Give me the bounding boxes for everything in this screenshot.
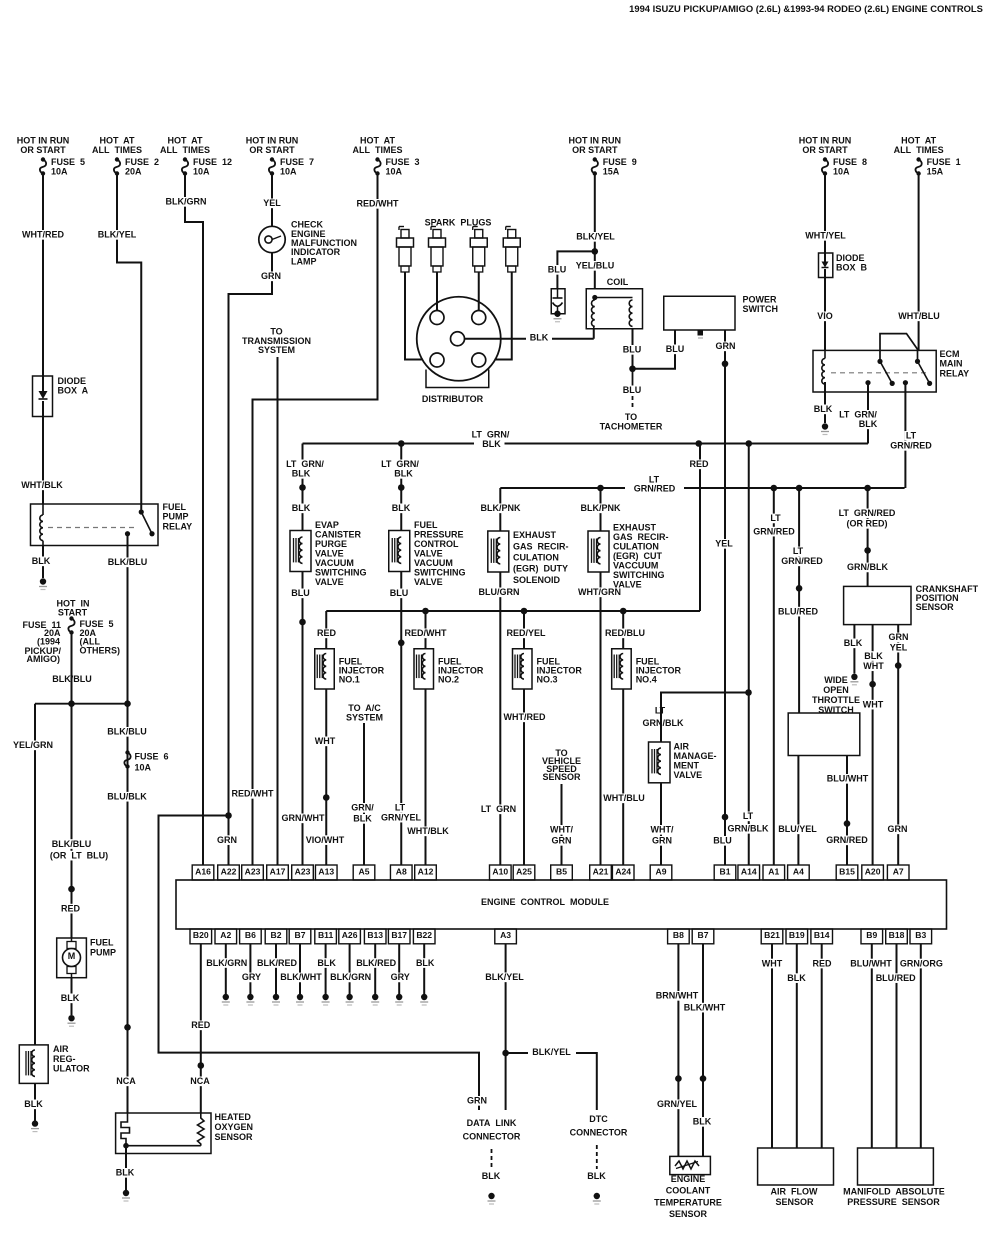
svg-text:ENGINE: ENGINE (671, 1174, 706, 1184)
fuel pump relay (31, 504, 159, 546)
svg-text:B22: B22 (416, 930, 432, 940)
node GRN/RED splice (844, 820, 851, 827)
svg-text:BLU/WHT: BLU/WHT (827, 774, 869, 784)
svg-text:OPEN: OPEN (823, 685, 849, 695)
pin B3 (910, 929, 932, 944)
svg-text:BLK/YEL: BLK/YEL (576, 232, 615, 242)
wire LT GRN/RED bus to A1 (773, 488, 775, 865)
wire air management valve branch (661, 693, 749, 743)
ground fuel pump relay (40, 578, 46, 584)
svg-text:VALVE: VALVE (414, 549, 443, 559)
svg-text:GAS RECIR-: GAS RECIR- (513, 541, 569, 551)
svg-text:GRN: GRN (217, 835, 237, 845)
wire WHT/GRN EGR cut to A21 (600, 572, 602, 865)
wire BLU/RED B18 (896, 944, 898, 1148)
svg-text:POWER: POWER (743, 295, 778, 305)
svg-text:BLK: BLK (416, 958, 435, 968)
svg-text:BLU: BLU (666, 344, 685, 354)
pin A24 (612, 865, 634, 880)
svg-text:BOX B: BOX B (836, 263, 868, 273)
svg-text:BLK: BLK (844, 638, 863, 648)
svg-text:WHT/RED: WHT/RED (22, 230, 64, 240)
svg-text:HEATED: HEATED (215, 1112, 252, 1122)
svg-text:PUMP: PUMP (163, 512, 189, 522)
svg-text:A26: A26 (342, 930, 358, 940)
spark plug 4 (505, 227, 507, 231)
wire BLK/RED to ground (374, 944, 376, 994)
svg-text:YEL/BLU: YEL/BLU (576, 261, 615, 271)
svg-text:BLK: BLK (693, 1117, 712, 1127)
pin B21 (761, 929, 783, 944)
svg-text:BLK: BLK (317, 958, 336, 968)
svg-text:(1994: (1994 (37, 637, 60, 647)
svg-text:ECM: ECM (940, 349, 960, 359)
svg-text:RELAY: RELAY (163, 521, 193, 531)
wire BLU/YEL WOT to A4 (797, 756, 799, 865)
svg-text:RED: RED (191, 1020, 211, 1030)
node BLK/BLU junction (35, 703, 128, 705)
pin A25 (513, 865, 535, 880)
wire BLU EVAP to splice (302, 572, 304, 623)
wire BLK/WHT crank sensor (872, 625, 874, 685)
diode box A (33, 376, 53, 417)
svg-text:20A: 20A (125, 166, 142, 176)
svg-text:A20: A20 (865, 866, 881, 876)
svg-text:B21: B21 (764, 930, 780, 940)
ground fuel pump (68, 1015, 74, 1021)
ground (322, 994, 328, 1000)
svg-text:CONNECTOR: CONNECTOR (570, 1128, 628, 1138)
svg-text:BLK: BLK (482, 1171, 501, 1181)
svg-text:BLK/RED: BLK/RED (257, 958, 297, 968)
svg-text:OR START: OR START (572, 145, 618, 155)
svg-text:RED: RED (61, 903, 81, 913)
svg-text:(OR LT BLU): (OR LT BLU) (50, 850, 108, 860)
wire YEL/GRN to air regulator (34, 704, 36, 1045)
svg-text:BRN/WHT: BRN/WHT (656, 991, 699, 1001)
wire WHT/BLK diode A to fuel pump relay (42, 417, 44, 505)
capacitor (condenser) (551, 289, 565, 314)
ground O2 sensor (123, 1190, 129, 1196)
svg-text:GRN/RED: GRN/RED (753, 526, 795, 536)
svg-text:ALL TIMES: ALL TIMES (160, 145, 210, 155)
svg-text:RED/BLU: RED/BLU (605, 628, 645, 638)
wire WHT/BLK injector2 to A12 (425, 689, 427, 865)
svg-text:BLU: BLU (623, 345, 642, 355)
node GRN splice (895, 662, 902, 669)
wire BLK/WHT to ground (299, 944, 301, 994)
diode box B (819, 253, 833, 278)
svg-text:BLK: BLK (859, 419, 878, 429)
svg-text:GRN: GRN (889, 632, 909, 642)
svg-text:BLK: BLK (353, 814, 372, 824)
svg-text:A25: A25 (516, 866, 532, 876)
fuel injector no.4 (622, 611, 624, 649)
svg-text:PRESSURE SENSOR: PRESSURE SENSOR (847, 1197, 940, 1207)
svg-text:COOLANT: COOLANT (666, 1186, 711, 1196)
svg-text:YEL: YEL (715, 539, 733, 549)
svg-text:A23: A23 (245, 866, 261, 876)
svg-text:PRESSURE: PRESSURE (414, 530, 464, 540)
svg-text:WHT/BLU: WHT/BLU (898, 311, 940, 321)
pin A26 (339, 929, 361, 944)
bus LT GRN/BLK (303, 443, 475, 445)
pin A13 (315, 865, 337, 880)
wire BLK/BLU fuse5 to fuel pump (71, 634, 73, 889)
pin A4 (788, 865, 810, 880)
svg-text:BLK/YEL: BLK/YEL (532, 1047, 571, 1057)
wire WHT/GRN to B5 (561, 784, 563, 865)
ground (223, 994, 229, 1000)
svg-text:WHT/BLU: WHT/BLU (603, 793, 645, 803)
svg-text:A17: A17 (270, 866, 286, 876)
wire EGR cut column (600, 488, 602, 531)
pin B6 (240, 929, 262, 944)
wire LT GRN/RED (OR RED) to crank sensor (867, 488, 869, 586)
svg-text:B5: B5 (556, 866, 567, 876)
plug wire 2 (436, 272, 438, 311)
svg-text:A1: A1 (768, 866, 779, 876)
svg-text:RELAY: RELAY (940, 368, 970, 378)
wire GRN/RED to B15 (846, 824, 848, 865)
svg-text:MANIFOLD ABSOLUTE: MANIFOLD ABSOLUTE (843, 1186, 945, 1196)
node EVAP GRN/WHT splice (299, 619, 306, 626)
svg-text:A13: A13 (318, 866, 334, 876)
heated oxygen sensor (116, 1113, 211, 1154)
svg-text:VACCUUM: VACCUUM (613, 561, 658, 571)
svg-text:B2: B2 (271, 930, 282, 940)
pin B18 (886, 929, 908, 944)
svg-text:GRN/BLK: GRN/BLK (643, 718, 684, 728)
svg-text:LT: LT (906, 431, 917, 441)
svg-text:BLK: BLK (292, 469, 311, 479)
ground data link (488, 1193, 494, 1199)
manifold absolute pressure sensor (858, 1148, 934, 1185)
wire BLU/WHT B9 (871, 944, 873, 1148)
pin B7 (692, 929, 714, 944)
node splice VIO/WHT (323, 794, 330, 801)
svg-text:BLU/WHT: BLU/WHT (850, 958, 892, 968)
svg-text:GRN/RED: GRN/RED (634, 484, 676, 494)
svg-text:A7: A7 (893, 866, 904, 876)
svg-text:B7: B7 (295, 930, 306, 940)
wire EVAP valve column (302, 444, 304, 531)
wire RED bus to injector feed (699, 444, 701, 612)
wire GRN/ORG B3 (920, 944, 922, 1148)
ground (372, 994, 378, 1000)
pin A16 (192, 865, 214, 880)
svg-text:LT: LT (793, 546, 804, 556)
svg-text:MAIN: MAIN (940, 359, 963, 369)
svg-text:10A: 10A (193, 166, 210, 176)
wire GRN lamp to A22 (229, 253, 273, 865)
pin B2 (265, 929, 287, 944)
pin A14 (738, 865, 760, 880)
EVAP canister purge valve (290, 531, 311, 572)
svg-text:SENSOR: SENSOR (775, 1197, 814, 1207)
plug wire 1 (405, 272, 423, 360)
wire VIO/WHT to A13 (325, 798, 327, 865)
air regulator (19, 1045, 48, 1084)
wire BLU coil to tach splice (632, 329, 634, 369)
svg-text:CULATION: CULATION (613, 542, 659, 552)
node air mgmt branch (745, 689, 752, 696)
svg-text:AIR: AIR (53, 1044, 69, 1054)
svg-text:GRN: GRN (552, 836, 572, 846)
svg-text:BLK: BLK (787, 973, 806, 983)
wire BLK fuel pump to ground (71, 978, 73, 1015)
svg-text:(EGR) DUTY: (EGR) DUTY (513, 564, 568, 574)
svg-text:WHT: WHT (762, 958, 783, 968)
node RED splice fuel pump (68, 886, 75, 893)
pin B19 (786, 929, 808, 944)
svg-text:YEL: YEL (890, 642, 908, 652)
pin B8 (668, 929, 690, 944)
wire BLK/YEL fuse9 (594, 174, 596, 252)
node bus1 RED feed (695, 440, 702, 447)
svg-text:RED: RED (317, 628, 337, 638)
svg-text:GRN: GRN (652, 836, 672, 846)
svg-text:RED/WHT: RED/WHT (405, 628, 447, 638)
svg-text:BLK/YEL: BLK/YEL (98, 230, 137, 240)
wire BLU/WHT WOT down (846, 756, 848, 824)
svg-text:BLU: BLU (623, 385, 642, 395)
wire VIO diode B to ECM relay (824, 278, 826, 351)
svg-text:FUEL: FUEL (90, 938, 114, 948)
check engine malfunction indicator lamp (259, 226, 285, 252)
pin A10 (490, 865, 512, 880)
svg-text:EXHAUST: EXHAUST (513, 530, 557, 540)
fuel injector no.3 (523, 611, 525, 649)
wire BLK data link to ground (491, 1149, 493, 1169)
wire BLK/WHT B7 (702, 944, 704, 1157)
wire BLU to condenser (557, 251, 594, 288)
pin B15 (836, 865, 858, 880)
svg-text:RED/YEL: RED/YEL (506, 628, 546, 638)
svg-text:ALL TIMES: ALL TIMES (353, 145, 403, 155)
wire EGR duty column (499, 488, 501, 531)
wire BLU/RED to WOT switch (798, 588, 800, 713)
svg-text:OR START: OR START (802, 145, 848, 155)
svg-text:GRN/RED: GRN/RED (781, 556, 823, 566)
svg-text:THROTTLE: THROTTLE (812, 695, 860, 705)
svg-text:NCA: NCA (116, 1076, 136, 1086)
svg-text:BLK/WHT: BLK/WHT (280, 972, 322, 982)
node bus2 A1 branch (771, 485, 778, 492)
pin A2 (215, 929, 237, 944)
node splice NCA (198, 1062, 205, 1069)
fuse F6 (125, 750, 129, 754)
engine coolant temperature sensor (670, 1156, 711, 1174)
svg-text:GRN/BLK: GRN/BLK (847, 562, 888, 572)
pin B13 (364, 929, 386, 944)
pin A8 (390, 865, 412, 880)
wire BRN/WHT B8 (677, 944, 679, 1157)
svg-text:WHT: WHT (863, 699, 884, 709)
svg-text:WHT: WHT (863, 661, 884, 671)
svg-text:B11: B11 (318, 930, 334, 940)
svg-text:BLK/BLU: BLK/BLU (107, 727, 147, 737)
wire GRY to ground (398, 944, 400, 994)
svg-text:YEL/GRN: YEL/GRN (13, 740, 53, 750)
node A3 splice (502, 1050, 509, 1057)
pin A7 (887, 865, 909, 880)
pin A21 (590, 865, 612, 880)
wire BLU to tachometer (632, 369, 634, 392)
pin A22 (218, 865, 240, 880)
node bus2 EGR cut (597, 485, 604, 492)
svg-text:EVAP: EVAP (315, 520, 339, 530)
ground (247, 994, 253, 1000)
wire GRN to A7 (897, 666, 899, 865)
ground (421, 994, 427, 1000)
node GRN/YEL splice (675, 1075, 682, 1082)
svg-text:START: START (58, 607, 88, 617)
svg-text:GRN: GRN (467, 1096, 487, 1106)
wire BLK crank sensor to ground (853, 625, 855, 674)
svg-text:A12: A12 (418, 866, 434, 876)
svg-text:BLK: BLK (587, 1171, 606, 1181)
svg-text:VIO: VIO (817, 311, 833, 321)
svg-text:GRN/BLK: GRN/BLK (728, 824, 769, 834)
svg-text:VALVE: VALVE (315, 549, 344, 559)
svg-text:EXHAUST: EXHAUST (613, 523, 657, 533)
svg-text:OR START: OR START (20, 145, 66, 155)
svg-text:A4: A4 (793, 866, 804, 876)
svg-text:PURGE: PURGE (315, 539, 347, 549)
svg-text:LT GRN/: LT GRN/ (839, 410, 877, 420)
svg-text:WHT/GRN: WHT/GRN (578, 587, 621, 597)
svg-text:BLK: BLK (24, 1099, 43, 1109)
svg-text:M: M (68, 951, 76, 961)
svg-text:A23: A23 (295, 866, 311, 876)
wire BLK DTC to ground (596, 1145, 598, 1169)
node BLU/BLK splice (124, 1024, 131, 1031)
svg-text:BLK/WHT: BLK/WHT (684, 1002, 726, 1012)
wire WHT/BLU fuse1 to ECM relay (918, 174, 920, 351)
wire YEL/BLU to coil (594, 251, 596, 288)
svg-text:BLU/RED: BLU/RED (876, 973, 916, 983)
svg-text:CANISTER: CANISTER (315, 530, 362, 540)
svg-text:BLK/BLU: BLK/BLU (52, 839, 92, 849)
svg-text:A2: A2 (220, 930, 231, 940)
ground crank sensor (851, 674, 857, 680)
svg-text:(OR RED): (OR RED) (847, 519, 888, 529)
node bus2 crank sensor branch (864, 485, 871, 492)
svg-text:BLK/PNK: BLK/PNK (581, 503, 621, 513)
wire WHT/RED injector3 to A25 (523, 689, 525, 865)
svg-text:BLK: BLK (814, 404, 833, 414)
svg-text:LT GRN/: LT GRN/ (286, 459, 324, 469)
wire BLK air regulator to ground (34, 1083, 36, 1120)
ground (297, 994, 303, 1000)
svg-text:RED: RED (689, 459, 709, 469)
svg-text:10A: 10A (386, 166, 403, 176)
svg-text:BLK/PNK: BLK/PNK (481, 503, 521, 513)
svg-text:ALL TIMES: ALL TIMES (92, 145, 142, 155)
wire BLK/YEL fuse2 to relay (117, 174, 141, 510)
svg-text:SENSOR: SENSOR (916, 602, 955, 612)
svg-text:GRN/YEL: GRN/YEL (381, 812, 422, 822)
ground (346, 994, 352, 1000)
ECM main relay (813, 350, 936, 392)
pin B5 (551, 865, 573, 880)
svg-text:NO.1: NO.1 (339, 674, 360, 684)
svg-text:RED/WHT: RED/WHT (357, 199, 399, 209)
node GRN/BLK splice (864, 547, 871, 554)
svg-text:A16: A16 (195, 866, 211, 876)
svg-text:DIODE: DIODE (58, 376, 87, 386)
svg-text:B7: B7 (698, 930, 709, 940)
svg-text:B18: B18 (889, 930, 905, 940)
svg-text:LT: LT (770, 513, 781, 523)
svg-text:BLK: BLK (482, 439, 501, 449)
svg-text:10A: 10A (135, 762, 152, 772)
svg-text:COIL: COIL (607, 277, 629, 287)
svg-text:TACHOMETER: TACHOMETER (600, 421, 663, 431)
wire BLK to ground (423, 944, 425, 994)
spark plug 1 (398, 227, 400, 231)
svg-text:1994 ISUZU PICKUP/AMIGO (2.6L): 1994 ISUZU PICKUP/AMIGO (2.6L) &1993-94 … (629, 3, 983, 14)
svg-text:SENSOR: SENSOR (215, 1132, 254, 1142)
svg-text:WHT/YEL: WHT/YEL (805, 231, 846, 241)
svg-text:15A: 15A (927, 166, 944, 176)
svg-text:AMIGO): AMIGO) (27, 654, 61, 664)
wire BLU fuel pressure valve down (400, 572, 402, 643)
wire RED to fuel pump (71, 889, 73, 938)
svg-text:WHT: WHT (315, 736, 336, 746)
EGR duty solenoid (488, 531, 509, 572)
svg-text:GRN: GRN (716, 341, 736, 351)
pin A23 (242, 865, 264, 880)
wire BLK/GRN to ground (225, 944, 227, 994)
spark plug 3 (472, 227, 474, 231)
svg-text:BLK: BLK (32, 556, 51, 566)
fuel injector no.2 (425, 611, 427, 649)
svg-text:BLK/GRN: BLK/GRN (166, 197, 207, 207)
svg-text:BLU/BLK: BLU/BLK (107, 791, 147, 801)
engine control module (176, 880, 947, 929)
pin A20 (862, 865, 884, 880)
node RED/WHT junction (225, 812, 232, 819)
svg-text:AIR FLOW: AIR FLOW (771, 1186, 818, 1196)
fuse F5 (20A all others) (69, 616, 73, 620)
plug wire 4 (495, 272, 512, 360)
wire BLU/GRN EGR duty down (499, 572, 501, 865)
wire BLK/YEL to DTC connector (506, 1052, 528, 1054)
svg-text:VIO/WHT: VIO/WHT (306, 835, 345, 845)
svg-text:REG-: REG- (53, 1054, 76, 1064)
svg-text:VACUUM: VACUUM (414, 558, 453, 568)
ground (273, 994, 279, 1000)
svg-text:BLU/GRN: BLU/GRN (479, 587, 520, 597)
svg-text:A24: A24 (615, 866, 631, 876)
wire RED/WHT fuse3 to A23 (253, 174, 378, 865)
svg-text:BOX A: BOX A (58, 386, 89, 396)
svg-text:BLU/RED: BLU/RED (778, 606, 818, 616)
svg-text:LT GRN/: LT GRN/ (381, 459, 419, 469)
node BLU splice B1 (722, 814, 729, 821)
svg-text:SWITCH: SWITCH (743, 304, 779, 314)
svg-text:BLK/BLU: BLK/BLU (108, 557, 148, 567)
svg-text:WHT/BLK: WHT/BLK (21, 480, 63, 490)
node feed injector4 (620, 608, 627, 615)
svg-text:CULATION: CULATION (513, 552, 559, 562)
svg-text:WHT/RED: WHT/RED (504, 712, 546, 722)
svg-text:WHT/: WHT/ (651, 825, 674, 835)
fuel injector no.1 (325, 611, 327, 649)
svg-text:LT: LT (395, 803, 406, 813)
